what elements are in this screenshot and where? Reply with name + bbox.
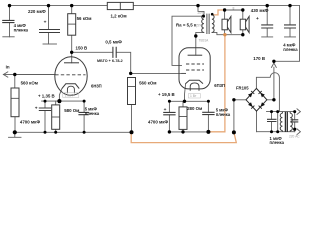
wire 280ohm bottom lead	[182, 129, 184, 132]
svg-text:+ 1,35 В: + 1,35 В	[38, 93, 55, 98]
MT primary winding	[290, 112, 292, 132]
wire V1 cathode diagonal	[59, 89, 62, 102]
node cathode rail L1	[44, 100, 47, 103]
mains chevron bottom	[297, 129, 300, 135]
svg-text:+ 19,5 В: + 19,5 В	[158, 92, 175, 97]
svg-text:(5%): (5%)	[196, 24, 203, 28]
input arrow head	[3, 72, 8, 78]
resistor 1.2k body (horizontal, on rail)	[107, 2, 133, 9]
wire OT secondary bottom tap and speaker bottom rail	[212, 32, 243, 34]
wire 1uF cap bottom lead	[271, 122, 273, 132]
node bridge minus corner	[232, 98, 235, 101]
svg-text:220 АС: 220 АС	[289, 135, 300, 139]
node screen tap on primary	[202, 15, 205, 18]
wire 280ohm top lead	[182, 101, 184, 107]
MT secondary winding	[280, 112, 282, 132]
svg-text:280 Ом: 280 Ом	[187, 106, 202, 111]
svg-text:4700 мкФ: 4700 мкФ	[148, 119, 168, 124]
wire bridge top AC elbow with hop	[256, 73, 279, 112]
OT primary winding	[202, 15, 204, 33]
wire 5uF R bottom lead	[207, 115, 209, 132]
wire 220uF cap top lead	[48, 6, 50, 30]
wire V1 cathode rail	[42, 100, 85, 102]
node 1uF bottom	[270, 130, 273, 133]
wire spk2 bottom lead	[242, 30, 244, 35]
ground bar 4uF input	[3, 36, 14, 38]
V2 envelope	[179, 48, 210, 89]
wire anode node to coupling cap	[72, 51, 113, 53]
node 56k rail	[70, 4, 73, 7]
capacitor 430uF plates	[261, 25, 273, 28]
svg-text:In: In	[6, 64, 10, 69]
tube V1 6N3P	[55, 57, 87, 96]
wire spk1 bottom lead	[224, 30, 226, 35]
node cathode rail R2	[207, 100, 210, 103]
svg-text:МБГО + К-78-2: МБГО + К-78-2	[97, 59, 123, 63]
wire 5uF R top lead	[207, 101, 209, 112]
node anode V1	[70, 51, 73, 54]
MT core	[285, 112, 287, 132]
wire orange PSU ground link	[131, 132, 236, 142]
node 4uF rail	[288, 4, 291, 7]
capacitor 5uF R plates	[202, 112, 214, 114]
wire left B+ drop to input cap	[9, 6, 11, 21]
node chevron mid	[293, 110, 296, 113]
label watt note R	[188, 94, 200, 98]
wire speaker top rail	[225, 9, 243, 11]
wire ground rail left	[15, 131, 132, 133]
wire 56k top lead	[71, 6, 73, 14]
node dot1 560k bottom	[130, 130, 134, 134]
capacitor 4700uF L plates	[39, 108, 51, 111]
node V1 cathode	[57, 99, 61, 103]
svg-text:пленка: пленка	[270, 140, 285, 145]
wire input shaft	[3, 74, 14, 76]
svg-text:1,2 кОм: 1,2 кОм	[111, 13, 127, 18]
svg-text:+: +	[44, 20, 47, 25]
node OT primary bottom	[194, 34, 197, 37]
svg-text:8: 8	[233, 6, 235, 10]
node gnd 580	[54, 131, 57, 134]
node 1uF top	[270, 110, 273, 113]
V1 anode	[64, 62, 79, 64]
wire bridge minus to ground drop	[234, 100, 246, 133]
V2 screen grid dashes	[186, 63, 204, 65]
wire transformer left branch	[277, 112, 279, 132]
node gnd input	[13, 130, 17, 134]
node spk2 bottom	[241, 33, 244, 36]
capacitor 0.5uF coupling plates	[113, 47, 116, 58]
V2 heater	[190, 83, 199, 91]
node dotB PSU gnd	[232, 130, 236, 134]
svg-text:560 кОм: 560 кОм	[21, 80, 38, 85]
speaker 2	[240, 16, 249, 32]
orange highlighted wiring	[131, 10, 236, 143]
wire anode node down to tube V1 plate	[71, 52, 73, 63]
wire 430uF top lead	[266, 6, 268, 25]
svg-text:+: +	[35, 107, 38, 112]
OT core	[207, 14, 209, 34]
node gnd 4700R	[168, 130, 171, 133]
node gnd 280	[181, 130, 184, 133]
svg-text:170 В: 170 В	[253, 56, 265, 61]
wire OT secondary top tap	[212, 14, 214, 16]
ground symbol left input	[9, 132, 22, 137]
capacitor 5uF L plates	[78, 112, 88, 114]
wire B+ top rail	[10, 5, 300, 7]
wire V2 cathode diagonal	[185, 84, 186, 102]
capacitor 220uF plates	[39, 30, 60, 33]
svg-text:220 мкФ: 220 мкФ	[28, 9, 46, 14]
diode top-left	[248, 91, 254, 98]
diode bottom-left	[248, 102, 254, 109]
wire V2 cathode rail	[169, 100, 208, 102]
wire 580ohm top lead	[55, 101, 57, 105]
svg-text:пленка: пленка	[14, 28, 29, 33]
V1 grid dashes	[55, 74, 85, 76]
wire V2 cathode ground rail	[169, 131, 208, 133]
output transformer	[202, 14, 214, 34]
node trafo branch top	[276, 110, 279, 113]
capacitor 4uF R plates	[284, 25, 296, 28]
resistor 560k out-grid body	[128, 78, 136, 105]
V1 envelope	[55, 57, 87, 96]
resistor 560k input body	[11, 88, 19, 117]
svg-text:56 кОм: 56 кОм	[77, 16, 92, 21]
svg-text:580 Ом: 580 Ом	[64, 108, 79, 113]
node spk1 top	[223, 8, 226, 11]
mains transformer	[280, 112, 292, 132]
wire mains cap branch top	[294, 112, 296, 120]
wire 4700uF R top lead	[168, 101, 170, 112]
node trafo branch bottom	[276, 130, 279, 133]
svg-text:150 В: 150 В	[76, 46, 88, 51]
speaker 1	[222, 16, 231, 32]
wire input grid-leak bottom	[14, 117, 16, 133]
wire coupling cap to grid node	[116, 52, 131, 73]
svg-text:+: +	[256, 17, 259, 22]
bridge rectifier FR105	[246, 88, 267, 111]
svg-text:пленка: пленка	[85, 111, 100, 116]
node B+ P	[272, 60, 275, 63]
wire 4700uF L bottom lead	[44, 111, 46, 133]
svg-text:560 кОм: 560 кОм	[139, 80, 156, 85]
B+ arrowhead	[272, 63, 277, 67]
svg-text:ТВЗ1А: ТВЗ1А	[199, 38, 210, 42]
node cathode rail R1	[168, 100, 171, 103]
wire grid node to V2 grid	[131, 72, 182, 74]
OT secondary winding	[212, 15, 214, 33]
capacitor 1uF PSU plates	[267, 119, 277, 121]
node gnd 5uFL	[83, 131, 86, 134]
V1 heater	[67, 86, 74, 93]
node rail left corner	[8, 4, 11, 7]
wire 4uF R top lead	[289, 6, 291, 25]
wire mains cap branch bottom	[294, 122, 296, 132]
node input	[13, 73, 16, 76]
node secondary top tap	[211, 13, 214, 16]
diode bottom-right	[259, 102, 265, 109]
wire 220uF cap bottom lead	[48, 33, 50, 45]
svg-text:4700 мкФ: 4700 мкФ	[20, 119, 40, 124]
V2 anode	[188, 54, 203, 56]
V2 cathode	[186, 80, 203, 83]
wire 430uF bottom lead + ground bar	[262, 28, 273, 37]
mains chevron top	[297, 109, 300, 115]
diode top-right	[258, 91, 264, 98]
wire bridge plus to B+ riser	[267, 67, 274, 100]
wire 5uF L top lead	[83, 101, 85, 112]
wire 580ohm bottom lead	[55, 129, 57, 132]
node mains cap bottom	[293, 128, 296, 131]
node cathode rail L2	[83, 100, 86, 103]
wire 4uF input cap bottom lead	[9, 23, 11, 37]
svg-text:пленка: пленка	[283, 47, 298, 52]
wire bridge bottom drop	[256, 111, 258, 132]
wire OT primary bottom to anode	[196, 32, 204, 55]
wire spk1 top lead	[224, 10, 226, 19]
wire PSU middle AC rail	[267, 111, 295, 113]
capacitor mains X plates	[291, 120, 299, 122]
wire OT primary top to rail	[198, 6, 204, 15]
svg-text:пленка: пленка	[216, 112, 231, 117]
svg-text:0,5 мкФ: 0,5 мкФ	[105, 39, 122, 44]
svg-text:430 мкФ: 430 мкФ	[251, 8, 269, 13]
capacitor C-in 4uF film plates	[2, 20, 14, 22]
node OT rail	[196, 4, 199, 7]
resistor 56k body	[68, 14, 76, 36]
node V2 cathode	[183, 100, 186, 103]
wire input to V1 grid	[15, 74, 55, 76]
svg-text:20%: 20%	[198, 11, 205, 15]
wire 56k bottom to anode node	[71, 35, 73, 52]
wire PSU bottom AC rail	[257, 131, 295, 133]
wire 4uF R bottom lead + ground bar	[285, 28, 296, 37]
V2 control grid dashes	[186, 69, 204, 71]
wire 560k out-grid bottom lead	[131, 105, 133, 133]
wire spk2 top lead	[242, 10, 244, 19]
wire 4700uF L top lead	[44, 101, 46, 108]
wire 1uF cap top lead	[271, 112, 273, 120]
wire screen elbow	[172, 16, 204, 65]
node grid V2	[129, 72, 132, 75]
tube V2 output pentode	[179, 48, 210, 91]
node bridge plus corner	[272, 98, 275, 101]
node gnd 4700L	[44, 131, 47, 134]
wire B+ riser above arrow	[273, 61, 275, 63]
wire B+ rail right drop to PSU	[274, 6, 300, 62]
V2 grid entry jog	[182, 72, 187, 74]
wire orange speaker return drop	[209, 35, 225, 132]
wire orange secondary tap elbow	[214, 10, 224, 15]
V1 cathode	[62, 84, 79, 89]
node 430uF rail	[266, 4, 269, 7]
svg-text:+: +	[164, 108, 167, 113]
wire 5uF L bottom lead	[83, 115, 85, 133]
svg-text:1 Вт: 1 Вт	[190, 94, 197, 98]
node spk1 bottom orange	[223, 33, 226, 36]
svg-text:Ra = 5,5 к: Ra = 5,5 к	[176, 23, 197, 28]
svg-text:6Н3П: 6Н3П	[91, 83, 102, 88]
node spk2 top	[241, 8, 244, 11]
node 220uF rail	[47, 4, 50, 7]
wire input grid-leak drop	[14, 75, 16, 89]
capacitor 4700uF R plates	[163, 112, 175, 114]
svg-text:6П3П: 6П3П	[214, 83, 225, 88]
ground bar 220uF	[43, 43, 57, 45]
node dotA 5uFR	[206, 130, 210, 134]
svg-text:FR105: FR105	[236, 85, 249, 90]
svg-text:1 мкФ: 1 мкФ	[65, 94, 74, 98]
resistor 280 body	[179, 107, 187, 129]
label watt note L	[63, 93, 79, 98]
resistor 580 body	[52, 105, 60, 129]
wire 4700uF R bottom lead	[168, 115, 170, 132]
